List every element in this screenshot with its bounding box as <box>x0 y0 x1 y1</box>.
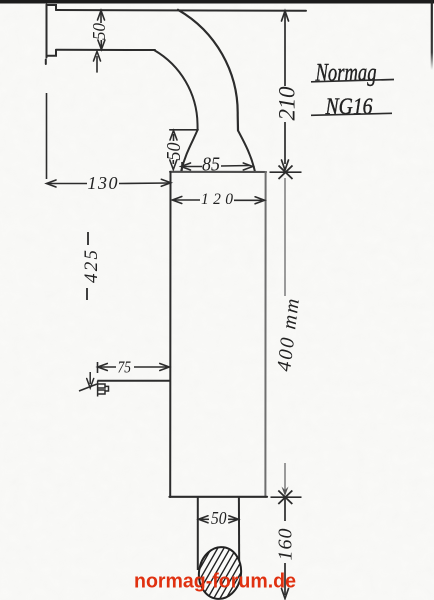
svg-text:normag-forum.de: normag-forum.de <box>134 570 296 593</box>
dim 50 flare height <box>170 131 177 170</box>
svg-text:160: 160 <box>275 529 297 561</box>
svg-text:75: 75 <box>118 358 132 377</box>
flare tick line <box>170 129 198 131</box>
svg-text:210: 210 <box>275 86 300 121</box>
underline NG16 <box>311 113 392 115</box>
dim 210 <box>282 11 289 170</box>
dim 130 <box>47 93 171 187</box>
elbow inner curve <box>154 50 198 130</box>
wire pipe bottom line <box>56 49 155 51</box>
clamp symbol <box>98 381 109 397</box>
dim 120 <box>172 197 264 204</box>
elbow outer curve <box>178 10 238 131</box>
dim 85 <box>181 162 253 171</box>
bottom edge extension line <box>271 496 302 498</box>
leader arrow to clamp <box>79 372 97 391</box>
bracket pipe line <box>97 380 170 382</box>
flange <box>46 5 56 65</box>
cone flare left <box>181 130 197 171</box>
svg-text:130: 130 <box>88 173 118 193</box>
top edge extension line <box>270 171 302 173</box>
svg-text:85: 85 <box>202 154 220 176</box>
tail pipe left line <box>197 497 199 570</box>
dim 160 <box>282 498 289 599</box>
wire pipe top line <box>56 9 306 12</box>
svg-text:Normag: Normag <box>315 60 377 87</box>
node X cross top <box>279 166 293 180</box>
node X cross bottom <box>278 491 292 505</box>
tail pipe right line <box>238 497 240 575</box>
svg-text:120: 120 <box>201 191 233 208</box>
label 425 <box>87 232 88 300</box>
top scan border band <box>0 0 434 4</box>
underline Normag <box>311 80 394 82</box>
cone flare right <box>238 131 255 172</box>
svg-text:425: 425 <box>81 250 102 283</box>
muffler body rectangle <box>170 172 268 497</box>
dim 50 tail pipe <box>199 516 239 523</box>
svg-text:50: 50 <box>164 142 185 160</box>
arrow below pipe bottom <box>94 52 101 73</box>
hatched end ellipse <box>169 525 264 600</box>
dim 75 <box>98 362 170 373</box>
dim 400 mm <box>284 178 286 494</box>
dim 50 pipe diameter <box>98 11 105 50</box>
svg-text:50: 50 <box>89 23 109 40</box>
right page border line <box>0 0 1 1</box>
svg-text:50: 50 <box>211 508 227 528</box>
